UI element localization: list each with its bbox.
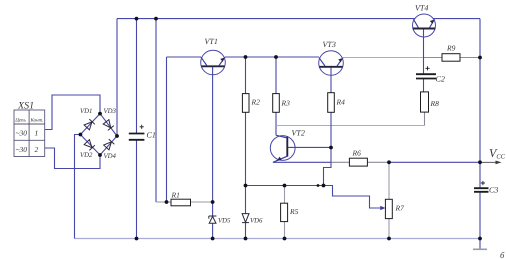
wire R7 bottom stub <box>388 219 390 239</box>
capacitor C1 (polarized) <box>129 134 145 140</box>
svg-text:VD5: VD5 <box>218 218 231 225</box>
svg-text:R6: R6 <box>352 148 362 157</box>
svg-text:VT4: VT4 <box>415 4 428 13</box>
svg-text:1: 1 <box>35 129 39 138</box>
svg-text:VD4: VD4 <box>104 153 117 160</box>
wire VT2 base to R4 line <box>287 146 331 148</box>
svg-text:2: 2 <box>35 145 39 154</box>
svg-text:R2: R2 <box>251 97 261 106</box>
svg-text:R1: R1 <box>171 190 180 199</box>
svg-text:VD1: VD1 <box>80 108 92 115</box>
svg-text:Цепь: Цепь <box>14 118 26 124</box>
resistor R3 <box>273 94 280 113</box>
wire R3 branch vertical and VT2 collector <box>275 57 277 135</box>
wire pin2 path to bridge bottom node <box>45 148 100 169</box>
wire x156 vertical from top rail down to R1 <box>155 19 157 202</box>
wire R3 bottom to R8 bottom horizontal (light) <box>276 125 425 127</box>
connector XS1 table <box>14 110 45 157</box>
svg-text:R9: R9 <box>446 44 456 53</box>
svg-text:~30: ~30 <box>16 129 28 138</box>
wire left vertical from top rail to bridge right node <box>116 19 118 136</box>
wire R9 right to right rail (gray) <box>460 57 480 59</box>
svg-text:R3: R3 <box>281 98 291 107</box>
svg-text:VT2: VT2 <box>292 129 305 138</box>
wire R8 bottom stub <box>424 112 426 125</box>
resistor R4 <box>328 93 335 113</box>
ground symbol <box>473 248 487 250</box>
resistor R9 <box>442 54 460 62</box>
svg-text:~30: ~30 <box>16 145 28 154</box>
diode VD3 (bridge upper-right) <box>103 120 114 131</box>
svg-text:R7: R7 <box>395 203 405 212</box>
capacitor C3 (polarized) <box>474 188 489 192</box>
resistor R6 <box>349 158 367 166</box>
svg-text:R5: R5 <box>289 207 299 216</box>
Vcc output arrow <box>480 161 499 163</box>
wire lower node horizontal with zigzag to R7 wiper <box>246 186 384 209</box>
wire node to R9 left (gray) <box>424 57 443 59</box>
transistor VT1 <box>201 50 226 75</box>
diode VD2 (bridge lower-left) <box>84 139 95 150</box>
zener diode VD5 <box>209 216 217 223</box>
resistor R8 <box>421 92 429 112</box>
wire R6 right to Vcc rail <box>367 161 389 163</box>
capacitor C2 (polarized) <box>416 74 436 78</box>
wiper arrow into R7 <box>380 206 385 210</box>
resistor R1 <box>171 199 191 206</box>
wire VT3 base and R4 branch with jog to lower node <box>324 67 332 186</box>
svg-text:R4: R4 <box>336 97 346 106</box>
wire VT2 emitter horizontal to R6 <box>273 161 332 163</box>
resistor R2 <box>242 94 249 113</box>
wire bottom rail (light) <box>75 238 481 240</box>
diode VD4 (bridge lower-right) <box>103 139 114 150</box>
svg-text:C1: C1 <box>147 131 156 140</box>
wire C1 branch vertical <box>136 19 138 239</box>
svg-text:XS1: XS1 <box>17 101 34 112</box>
svg-text:VD6: VD6 <box>250 218 263 225</box>
svg-text:VT1: VT1 <box>205 37 218 46</box>
wire bridge left node to bottom rail <box>75 135 81 239</box>
wire VT1 collector down vertical x166.5 <box>166 57 168 202</box>
wire right rail x480 <box>479 19 481 249</box>
svg-text:C2: C2 <box>436 75 445 84</box>
wire VT3 emitter to C2 node (light) <box>343 57 424 59</box>
svg-text:R8: R8 <box>430 99 440 108</box>
diode VD1 (bridge upper-left) <box>84 119 95 130</box>
transistor VT4 <box>413 14 436 37</box>
svg-text:б: б <box>500 250 505 259</box>
wire VT4 base / C2 vertical <box>423 29 425 92</box>
wire VT1 left (collector) horizontal <box>167 56 202 58</box>
resistor R7 (variable) <box>385 199 392 218</box>
svg-text:Конт.: Конт. <box>30 118 44 124</box>
diode VD6 <box>242 214 249 223</box>
resistor R5 <box>281 203 288 221</box>
wire R2 branch vertical <box>245 57 247 239</box>
wire bridge diamond <box>80 114 117 155</box>
svg-text:VD3: VD3 <box>104 108 117 115</box>
transistor VT2 <box>270 135 295 162</box>
wire R7 top stub <box>388 162 390 199</box>
wire R5 stubs <box>284 186 286 239</box>
svg-text:VD2: VD2 <box>80 152 93 159</box>
wire pin1 path to bridge top node <box>45 95 100 130</box>
wire top positive rail <box>117 18 480 20</box>
svg-text:C3: C3 <box>489 186 498 195</box>
transistor VT3 <box>319 51 344 76</box>
wire R1 right lead <box>190 201 212 203</box>
svg-text:VT3: VT3 <box>323 40 336 49</box>
wire VT1 emitter to VT3 <box>225 56 319 58</box>
wire VT1 base vertical to VD5 and bottom rail <box>212 66 214 238</box>
